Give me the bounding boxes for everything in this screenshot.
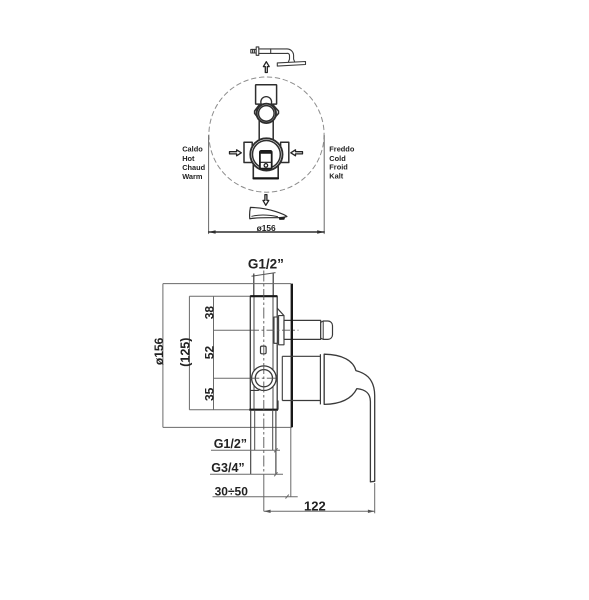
svg-text:Caldo: Caldo <box>182 145 203 154</box>
valve body inner circle <box>253 141 281 169</box>
bottom outlet stub G3/4 outer <box>251 410 276 475</box>
svg-text:G3/4”: G3/4” <box>211 461 244 475</box>
valve body block <box>250 296 277 410</box>
30÷50 dimension line <box>213 496 298 498</box>
G1/2 bottom leader line <box>211 449 280 451</box>
lever end extension line <box>374 483 376 513</box>
122 dimension line <box>264 510 375 513</box>
wall plate bottom edge extension <box>163 426 292 428</box>
shower arm wall flange <box>256 47 259 55</box>
svg-text:38: 38 <box>202 306 216 320</box>
main vertical centerline <box>263 271 265 477</box>
svg-text:Cold: Cold <box>329 154 346 163</box>
port centerline tick (38/52 boundary) <box>214 329 252 331</box>
ø156 extension line left <box>208 136 210 234</box>
valve top cover rectangle <box>256 85 277 104</box>
svg-text:52: 52 <box>202 346 216 360</box>
valve body outer circle <box>250 138 282 170</box>
shower arm elbow and drop <box>287 49 295 62</box>
casting parting line at cartridge <box>250 389 260 390</box>
down flow arrow to spout <box>263 195 269 206</box>
shower port flange plate 2 <box>279 316 284 345</box>
cartridge circle outer <box>252 366 277 391</box>
diverter knob inner circle <box>259 106 275 122</box>
svg-text:Kalt: Kalt <box>329 172 344 181</box>
svg-text:G1/2”: G1/2” <box>248 256 284 271</box>
shower arm nipple <box>251 49 256 53</box>
body top tick line (38 start) <box>189 295 250 297</box>
ø156 extension line right <box>323 136 325 234</box>
body bottom tick line (35 end / 125 end) <box>189 409 249 411</box>
handle screw <box>264 164 268 168</box>
left flow arrow (hot) <box>230 150 242 156</box>
38/52/35 dimension line vertical <box>213 296 215 409</box>
wall plate top edge extension <box>163 283 291 285</box>
bottom outlet rectangle <box>253 160 278 179</box>
shower port tube <box>284 320 321 339</box>
diverter knob outer circle <box>257 104 276 123</box>
cartridge horizontal centerline <box>250 377 277 379</box>
shower port centerline <box>251 329 299 331</box>
body top heavy line <box>250 295 277 297</box>
trim sleeve behind plate <box>281 356 283 400</box>
hex nut around diverter knob <box>255 104 279 120</box>
(125) dimension line vertical <box>188 296 190 409</box>
shower port end cap <box>321 321 333 339</box>
cartridge circle inner <box>255 370 272 387</box>
ø156 dimension line <box>209 230 325 233</box>
handle dome with lever (side profile) <box>324 354 375 482</box>
bottom outlet stub G1/2 inner <box>255 410 273 451</box>
svg-text:35: 35 <box>202 387 216 401</box>
shower arm horizontal pipe <box>259 49 287 54</box>
up flow arrow <box>263 62 269 73</box>
plate bottom corner step <box>277 401 279 410</box>
G1/2 top thread extent tick <box>252 273 276 277</box>
lever handle front view <box>260 151 272 169</box>
svg-text:122: 122 <box>304 498 326 513</box>
cartridge centerline tick (52/35 boundary) <box>214 377 251 379</box>
svg-text:Warm: Warm <box>182 172 203 181</box>
spout symbol <box>250 207 287 220</box>
right cold port tab <box>281 142 289 162</box>
svg-text:(125): (125) <box>178 338 192 367</box>
svg-text:Froid: Froid <box>329 163 348 172</box>
G3/4 leader line <box>210 473 283 475</box>
plate face extension down <box>290 427 292 497</box>
svg-text:ø156: ø156 <box>152 337 166 365</box>
body bottom heavy line <box>249 409 278 411</box>
trim sleeve <box>282 354 324 404</box>
shower port flange plate 1 <box>274 317 277 343</box>
chamfer to shower port flange <box>277 308 284 315</box>
left hot port tab <box>244 142 252 162</box>
knob top bump <box>261 97 272 108</box>
svg-text:Hot: Hot <box>182 154 195 163</box>
shower head plate <box>277 62 305 67</box>
svg-text:G1/2”: G1/2” <box>214 437 247 451</box>
top inlet pipe stub G1/2 <box>254 274 273 297</box>
wall plate edge (heavy vertical) <box>291 284 293 428</box>
svg-text:Chaud: Chaud <box>182 163 205 172</box>
inlet pipe lines through body <box>254 296 273 410</box>
set screw detail <box>261 346 267 354</box>
svg-text:ø156: ø156 <box>257 223 276 233</box>
svg-text:Freddo: Freddo <box>329 145 355 154</box>
ø156 dimension line (vertical, left) <box>162 284 164 428</box>
neck between knob and body <box>259 121 273 139</box>
right flow arrow (cold) <box>291 150 303 156</box>
wall plate dashed circle ø156 <box>209 77 324 192</box>
